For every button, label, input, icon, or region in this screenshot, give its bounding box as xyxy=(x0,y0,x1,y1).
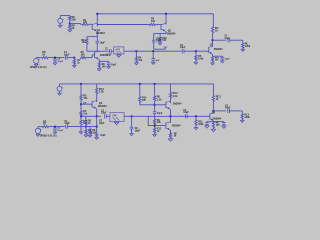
svg-text:10k: 10k xyxy=(72,18,77,21)
svg-text:10k: 10k xyxy=(157,121,162,124)
svg-text:1µF: 1µF xyxy=(155,60,159,62)
svg-text:2N3904: 2N3904 xyxy=(172,125,181,128)
svg-text:100k: 100k xyxy=(198,58,204,61)
svg-text:10µF: 10µF xyxy=(183,111,189,114)
svg-text:2N3904: 2N3904 xyxy=(173,102,182,105)
svg-text:-: - xyxy=(62,91,63,94)
svg-text:2N3904: 2N3904 xyxy=(212,118,221,121)
svg-text:-: - xyxy=(63,23,64,26)
svg-text:47k: 47k xyxy=(83,97,88,100)
svg-text:10µF: 10µF xyxy=(99,123,105,125)
svg-text:10µF: 10µF xyxy=(101,112,107,115)
svg-text:2N3904: 2N3904 xyxy=(214,48,223,51)
svg-text:2.2k: 2.2k xyxy=(157,98,162,101)
svg-text:10µF: 10µF xyxy=(156,41,162,43)
svg-text:-: - xyxy=(39,63,40,66)
svg-text:10µF: 10µF xyxy=(225,58,231,60)
svg-text:10k: 10k xyxy=(151,20,156,23)
svg-text:10µF: 10µF xyxy=(100,135,106,137)
svg-text:100k: 100k xyxy=(245,116,251,119)
svg-text:2N3904: 2N3904 xyxy=(100,54,109,57)
svg-text:100k: 100k xyxy=(198,123,204,126)
svg-text:0.1µF: 0.1µF xyxy=(57,61,63,63)
svg-text:SINE(0 0.01 1k): SINE(0 0.01 1k) xyxy=(40,135,57,137)
svg-text:10µF: 10µF xyxy=(157,113,163,115)
svg-text:2.2k: 2.2k xyxy=(99,91,104,94)
svg-text:10µF: 10µF xyxy=(135,130,141,133)
svg-text:100k: 100k xyxy=(245,45,251,48)
svg-text:SINE(0 0.01 1k): SINE(0 0.01 1k) xyxy=(30,67,47,69)
svg-text:47k: 47k xyxy=(142,99,147,102)
svg-text:10µF: 10µF xyxy=(180,47,186,49)
svg-text:10k: 10k xyxy=(81,53,86,56)
svg-text:2N3904: 2N3904 xyxy=(98,105,107,108)
svg-text:2.2k: 2.2k xyxy=(173,95,178,98)
svg-text:10µF: 10µF xyxy=(111,64,117,66)
svg-text:0.1µF: 0.1µF xyxy=(57,130,63,132)
svg-text:10µF: 10µF xyxy=(100,43,106,45)
svg-text:2N3904: 2N3904 xyxy=(167,33,176,36)
